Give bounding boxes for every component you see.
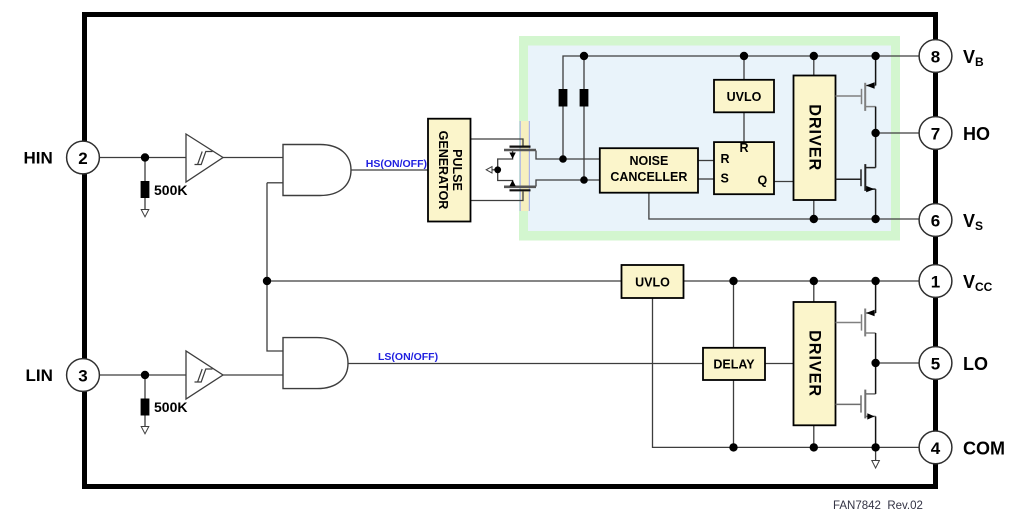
svg-text:1: 1: [931, 273, 940, 292]
wire Rd1 bottom lead: [562, 107, 564, 160]
high-side floating region (green frame): [519, 36, 900, 241]
wire HIN pin2 to schmitt1: [99, 157, 186, 159]
wire UVLO1 to latch R: [743, 112, 745, 142]
svg-text:3: 3: [78, 367, 87, 386]
wire Rd2 top lead: [583, 56, 585, 89]
svg-text:HIN: HIN: [24, 149, 53, 168]
driver block (high side): [794, 76, 836, 201]
wire latch Q to DRIVER1: [774, 181, 794, 183]
wire schmitt2 out to AND2: [223, 374, 283, 376]
ground arrow (HIN pulldown): [141, 210, 149, 217]
wire Rd2 bottom lead: [583, 107, 585, 181]
junction mid LS: [494, 166, 501, 173]
junction LIN/R2: [141, 371, 149, 379]
AND gate G1 (HS): [283, 145, 351, 196]
junction enable/VCC: [263, 277, 271, 285]
svg-text:DELAY: DELAY: [713, 358, 755, 372]
junction COM / Q4 source: [871, 443, 879, 451]
UVLO block (high side): [714, 80, 774, 113]
wire NC to latch inputs: [698, 160, 714, 162]
wire schmitt1 out to AND1: [223, 157, 283, 159]
wire VCC row: [267, 280, 622, 282]
wire VB rail and Rd1 top lead: [563, 56, 919, 89]
svg-text:HO: HO: [963, 124, 990, 144]
svg-text:500K: 500K: [154, 399, 187, 415]
svg-text:Q: Q: [758, 174, 768, 188]
schmitt trigger U2 (LIN): [186, 351, 223, 399]
UVLO block (low side): [622, 265, 684, 298]
pin 5 LO: [919, 347, 952, 380]
driver block (low side): [794, 302, 836, 425]
junction VB rail / Q1 source: [871, 52, 879, 60]
junction COM / DRIVER2: [810, 443, 818, 451]
wire DELAY to DRIVER2: [765, 363, 794, 365]
level-shift barrier strip: [521, 121, 530, 211]
junction VB rail / DRIVER1: [810, 52, 818, 60]
schmitt trigger U1 (HIN): [186, 134, 223, 182]
ground arrow (LIN pulldown): [141, 427, 149, 434]
wire R2 pulldown: [144, 375, 146, 399]
pin 7 HO: [919, 117, 952, 150]
wire LIN pin3 to schmitt2: [99, 374, 186, 376]
svg-text:PULSE: PULSE: [450, 149, 464, 191]
level shift nmos M1 (upper): [510, 146, 531, 148]
svg-text:UVLO: UVLO: [727, 90, 762, 104]
svg-text:UVLO: UVLO: [635, 276, 670, 290]
svg-text:DRIVER: DRIVER: [806, 104, 824, 171]
svg-text:R: R: [721, 152, 730, 166]
junction VB rail / UVLO1: [740, 52, 748, 60]
svg-text:R: R: [740, 141, 749, 155]
wire AND1 lower input from enable net: [267, 182, 283, 184]
svg-text:5: 5: [931, 355, 940, 374]
pin 6 VS: [919, 204, 952, 237]
pulse generator block: [428, 119, 471, 222]
wire DRIVER1 supply: [813, 56, 815, 76]
svg-text:LIN: LIN: [26, 366, 53, 385]
svg-text:NOISE: NOISE: [629, 154, 668, 168]
wire VS rail: [649, 193, 919, 219]
svg-text:GENERATOR: GENERATOR: [436, 131, 450, 210]
AND gate G2 (LS): [283, 338, 348, 389]
RS latch U3: [714, 142, 774, 194]
wire pulse gen top out: [471, 139, 524, 146]
level shift nmos M2 (lower): [504, 186, 536, 189]
wire upper LS drain to noise canceller R: [536, 151, 600, 160]
junction VCC / Q3 source: [871, 277, 879, 285]
IC boundary box: [85, 15, 936, 487]
junction VS rail / DRIVER1: [810, 215, 818, 223]
svg-text:S: S: [721, 172, 729, 186]
delay block: [703, 348, 765, 380]
svg-text:FAN7842 Rev.02: FAN7842 Rev.02: [833, 500, 923, 512]
junction VB rail / Rd2: [580, 52, 588, 60]
svg-text:LS(ON/OFF): LS(ON/OFF): [378, 351, 438, 363]
wire DELAY supply vertical: [733, 281, 735, 348]
wire LS(ON/OFF) AND2 out to DELAY: [348, 363, 703, 365]
wire pulse gen bottom out: [471, 192, 524, 201]
ground arrow (COM): [872, 461, 880, 469]
wire UVLO2 down to COM: [653, 297, 920, 448]
resistor 500K (HIN): [141, 181, 150, 198]
junction Rd1 / NC R: [559, 155, 567, 163]
pin 3 LIN: [67, 359, 100, 392]
nmos Q2 (HS pull-down, black): [836, 133, 876, 219]
svg-text:4: 4: [931, 439, 941, 458]
wire LO row to pin5: [876, 362, 919, 364]
noise canceller block: [600, 148, 698, 193]
pmos Q3 (LS pull-up, gray): [836, 309, 876, 337]
pin 1 VCC: [919, 265, 952, 298]
pin 4 COM: [919, 431, 952, 464]
svg-text:6: 6: [931, 212, 940, 231]
wire DRIVER2 supply: [813, 281, 815, 302]
wire HO row to pin7: [876, 132, 919, 134]
svg-text:CANCELLER: CANCELLER: [610, 170, 687, 184]
junction LO node: [871, 359, 879, 367]
wire AND1 out to pulse generator (HS): [351, 169, 428, 171]
wire UVLO1 supply: [743, 56, 745, 80]
pmos Q1 (HS pull-up, gray): [836, 83, 876, 111]
pin 8 VB: [919, 40, 952, 73]
wire ground stub below COM: [875, 447, 877, 461]
resistor Rd1: [559, 89, 568, 107]
resistor 500K (LIN): [141, 399, 150, 416]
junction VS rail / Q2 source: [871, 215, 879, 223]
junction VCC / DELAY: [729, 277, 737, 285]
junction VCC / DRIVER2: [810, 277, 818, 285]
nmos Q4 (LS pull-down, gray): [836, 390, 876, 419]
node VS mid arrow: [486, 167, 492, 173]
wire R1 pulldown: [144, 158, 146, 182]
svg-text:DRIVER: DRIVER: [806, 330, 824, 397]
junction Rd2 / NC S: [580, 176, 588, 184]
wire lower LS drain to noise canceller S: [536, 180, 600, 187]
high-side floating region (blue fill): [528, 46, 891, 232]
svg-text:8: 8: [931, 48, 940, 67]
resistor Rd2: [580, 89, 589, 107]
junction HIN/R1: [141, 153, 149, 161]
svg-text:2: 2: [78, 149, 87, 168]
svg-text:COM: COM: [963, 438, 1005, 458]
pin 2 HIN: [67, 141, 100, 174]
svg-text:HS(ON/OFF): HS(ON/OFF): [366, 158, 427, 170]
junction HO node: [871, 129, 879, 137]
svg-text:500K: 500K: [154, 182, 187, 198]
wire LS mosfet mid node: [498, 151, 513, 186]
junction COM / DELAY: [729, 443, 737, 451]
svg-text:7: 7: [931, 125, 940, 144]
wire UVLO enable vertical net: [267, 183, 283, 351]
svg-text:LO: LO: [963, 354, 988, 374]
